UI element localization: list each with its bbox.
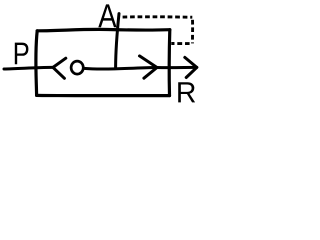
wire circle to right arrow — [84, 68, 157, 70]
node O event circle — [71, 61, 83, 74]
label R — [178, 82, 195, 102]
arrowhead right-pointing mid — [140, 56, 158, 78]
wire R output line — [157, 66, 197, 69]
wire A stem vertical — [116, 14, 119, 68]
label P — [15, 43, 29, 65]
arrowhead right-pointing end — [185, 57, 197, 77]
box (rectangle outline, hand-drawn) — [36, 29, 170, 95]
wire dashed feedback right vertical — [191, 20, 194, 44]
wire dashed feedback lower horizontal — [171, 42, 189, 45]
label A — [98, 4, 116, 27]
arrowhead left-pointing — [53, 58, 66, 78]
wire P input line — [4, 67, 53, 69]
wire dashed feedback top — [123, 15, 193, 18]
